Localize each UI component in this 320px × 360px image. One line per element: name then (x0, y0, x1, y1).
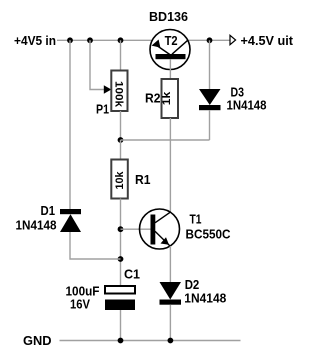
wire top rail right segment (188, 39, 230, 41)
svg-text:1N4148: 1N4148 (227, 99, 267, 113)
svg-text:10k: 10k (114, 171, 126, 190)
wire D2 bottom to GND (169, 305, 171, 341)
node on rail above wiper (87, 37, 93, 43)
wire D3 vertical top (209, 40, 211, 89)
svg-text:1k: 1k (161, 91, 173, 105)
diode D2 (160, 282, 182, 305)
resistor R1 (111, 160, 128, 199)
node D2 on GND (168, 338, 174, 344)
node on rail above D1 (67, 37, 73, 43)
capacitor C1 (105, 286, 135, 310)
svg-text:D1: D1 (41, 204, 56, 218)
svg-text:C1: C1 (124, 268, 140, 282)
svg-text:R1: R1 (135, 173, 151, 187)
wire wiper branch (90, 40, 105, 89)
svg-text:BD136: BD136 (149, 10, 188, 24)
svg-text:T1: T1 (190, 213, 202, 227)
svg-text:+4.5V uit: +4.5V uit (241, 34, 294, 48)
wire R1 bottom down through junctions to C1 (120, 199, 122, 286)
svg-text:D3: D3 (231, 86, 245, 100)
wire GND rail (60, 340, 241, 342)
wire mid node down to R1 (120, 140, 122, 160)
svg-text:R2: R2 (145, 92, 161, 106)
svg-text:GND: GND (23, 334, 52, 348)
diode D3 (199, 89, 221, 110)
diode D1 (60, 209, 81, 232)
wire D3 bottom (209, 110, 211, 140)
potentiometer P1 (111, 71, 127, 112)
node P1 bottom junction (118, 137, 124, 143)
wire mid horizontal to D3 (121, 139, 210, 141)
svg-text:100k: 100k (113, 81, 125, 108)
node C1 on GND (118, 338, 124, 344)
transistor T2 BD136 (150, 30, 190, 70)
wire T1 emitter down to D2 (169, 246, 171, 282)
wire R2 bottom to T1 collector (169, 118, 171, 212)
wire top rail left segment (57, 39, 152, 41)
wire P1 bottom to mid node (120, 111, 122, 140)
svg-text:BC550C: BC550C (186, 228, 231, 242)
svg-text:1N4148: 1N4148 (184, 292, 226, 306)
svg-text:P1: P1 (96, 103, 109, 117)
svg-text:D2: D2 (185, 278, 200, 292)
svg-text:100uF: 100uF (66, 285, 100, 299)
node at output above D3 (207, 37, 213, 43)
node on rail above P1 (118, 37, 124, 43)
wire T1 base (121, 228, 151, 230)
wiper arrow into P1 (104, 85, 112, 93)
node D1 junction (118, 256, 124, 262)
wire C1 bottom to GND (120, 310, 122, 341)
wire T2 base down to R2 (169, 59, 171, 79)
svg-text:T2: T2 (165, 33, 178, 48)
wire D1 bottom elbow (70, 232, 121, 259)
output arrow +4.5V uit (230, 35, 236, 44)
svg-text:+4V5 in: +4V5 in (14, 34, 56, 48)
node T1 base junction (118, 226, 124, 232)
wire P1 top (120, 40, 122, 70)
transistor T1 BC550C (140, 209, 180, 249)
resistor R2 (161, 79, 178, 118)
svg-text:16V: 16V (70, 298, 91, 312)
wire D1 branch vertical top (69, 40, 71, 209)
svg-text:1N4148: 1N4148 (16, 219, 57, 233)
